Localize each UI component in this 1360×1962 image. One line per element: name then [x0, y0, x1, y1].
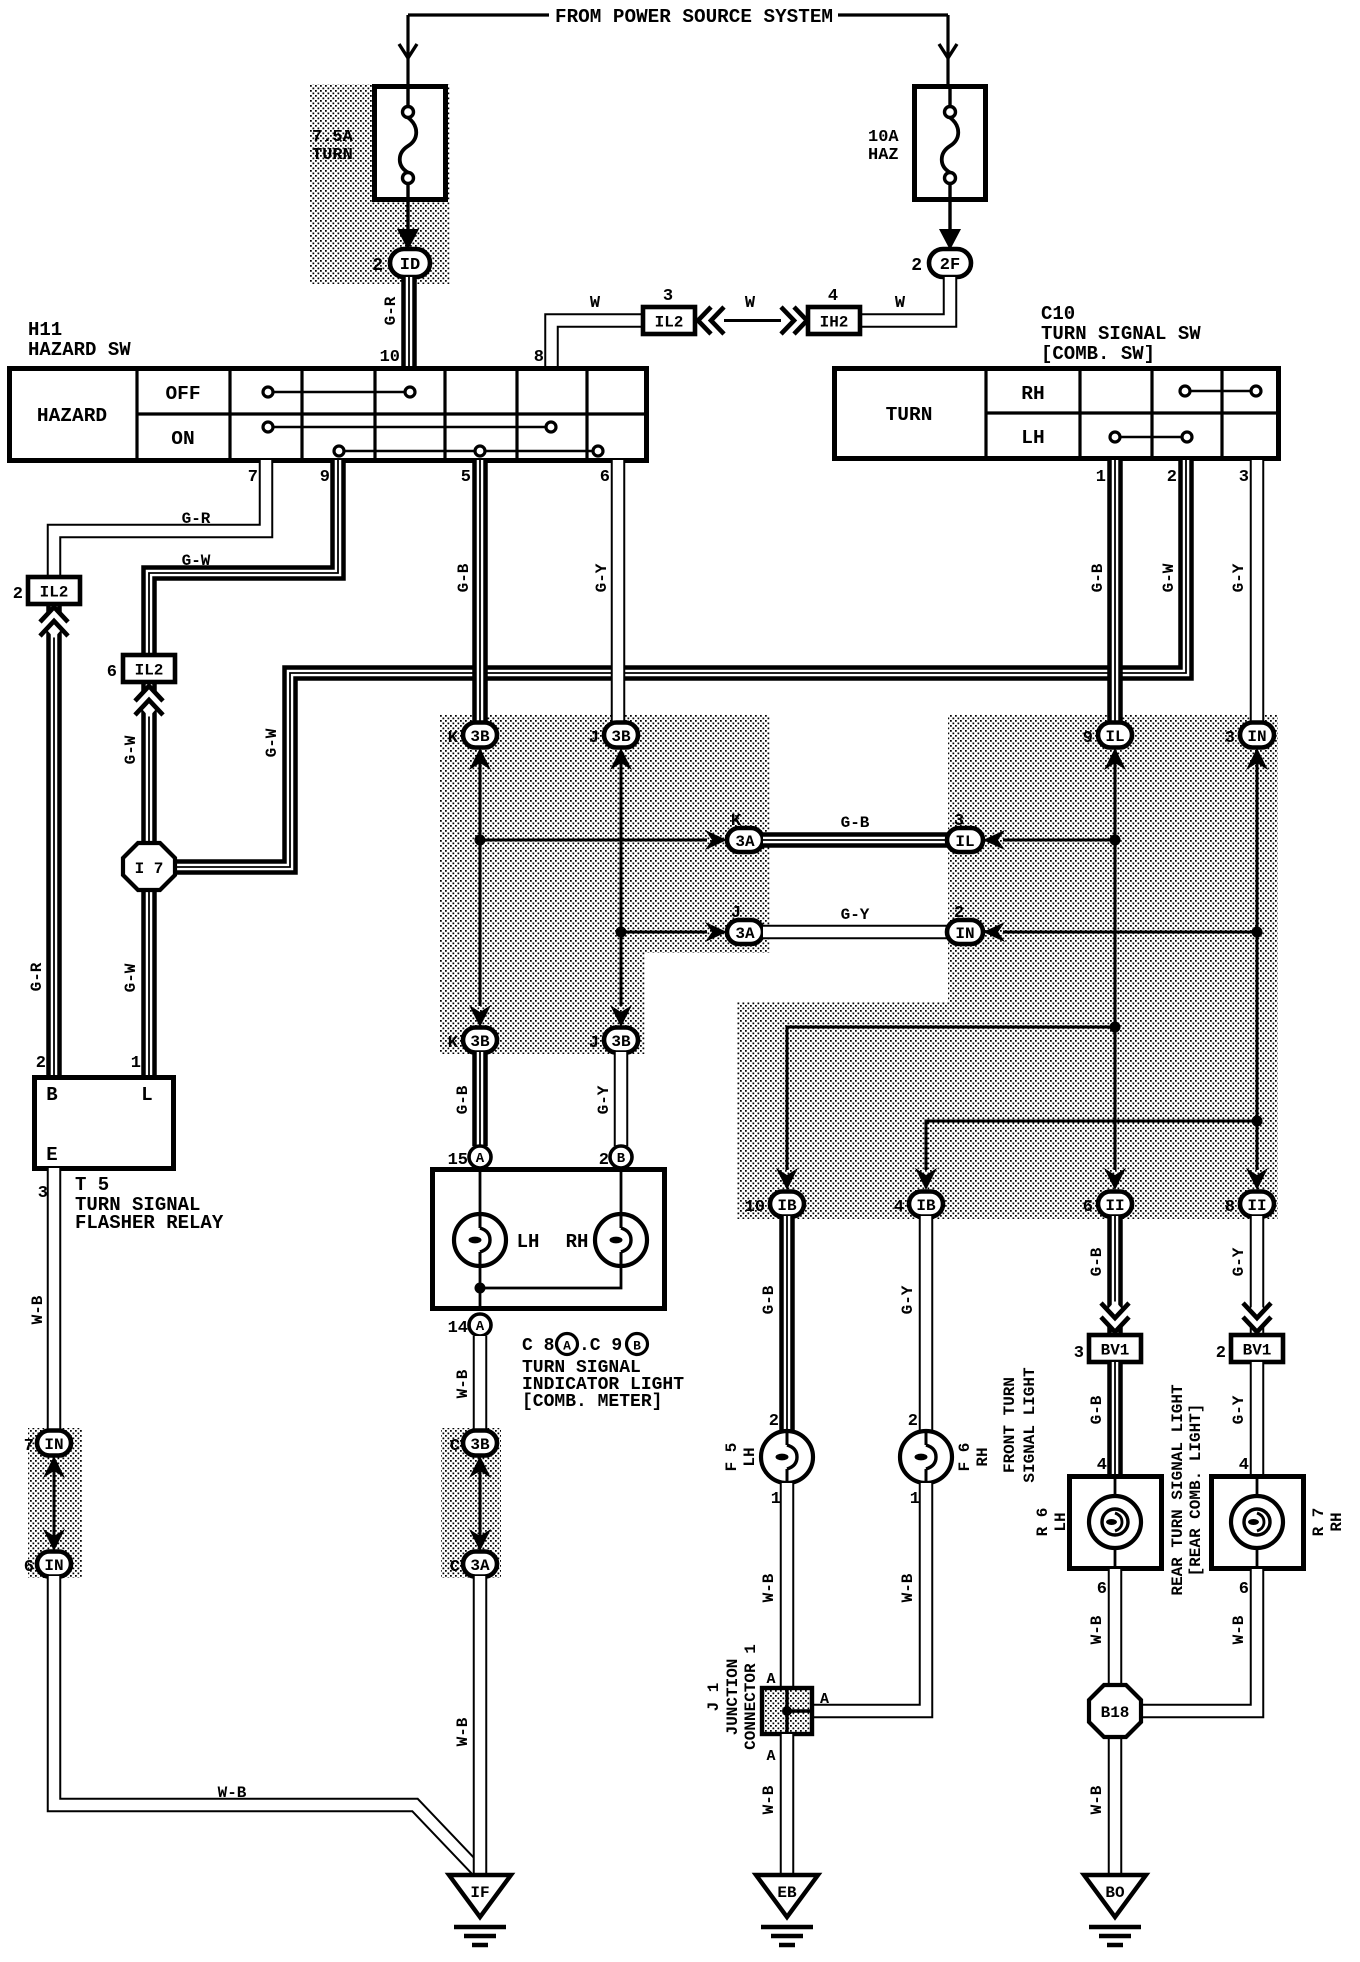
- svg-text:G-Y: G-Y: [595, 1085, 613, 1114]
- wire G-B (turn sw pin 1 to 9 IL): [1107, 460, 1123, 723]
- svg-text:9: 9: [320, 468, 330, 487]
- stipple region lower (IB/II harness): [737, 1002, 1278, 1219]
- stipple region behind 7IN/6IN connectors: [28, 1428, 82, 1578]
- chevrons between IL2 and IH2: [724, 319, 781, 322]
- svg-text:G-B: G-B: [454, 1085, 472, 1114]
- svg-text:IN: IN: [955, 925, 974, 943]
- fuse 10A HAZ: [915, 87, 986, 200]
- svg-text:TURN SIGNAL SW: TURN SIGNAL SW: [1041, 323, 1201, 345]
- svg-text:G-R: G-R: [382, 296, 400, 325]
- svg-text:2: 2: [954, 904, 964, 923]
- svg-text:K: K: [731, 812, 742, 831]
- wire G-Y (J3A to 2 IN): [763, 925, 947, 940]
- svg-text:.C 9: .C 9: [579, 1336, 622, 1356]
- svg-text:6: 6: [1097, 1580, 1107, 1599]
- wire C3B to C3A: [479, 1470, 482, 1545]
- svg-text:3B: 3B: [611, 1033, 631, 1051]
- connector J 3B lower: [604, 1028, 638, 1053]
- svg-text:A: A: [820, 1691, 829, 1708]
- meter pin 2 B: [610, 1146, 632, 1168]
- arrow into 3 IL: [983, 830, 1005, 850]
- wire row K to 3A: [480, 839, 707, 842]
- svg-text:3: 3: [38, 1184, 48, 1203]
- svg-text:W-B: W-B: [454, 1369, 472, 1398]
- connector 6 IN: [37, 1552, 71, 1577]
- connector K 3B lower: [463, 1028, 497, 1053]
- wire G-Y (turn sw pin 3 to 3 IN): [1250, 460, 1265, 723]
- junction dot G-B row3: [1110, 1022, 1121, 1033]
- stipple region right upper (IL/IN harness): [948, 715, 1278, 1002]
- svg-text:G-W: G-W: [1160, 563, 1178, 592]
- svg-text:F 5: F 5: [723, 1443, 741, 1472]
- wire fuse to connector ID: [406, 200, 409, 230]
- svg-text:CONNECTOR 1: CONNECTOR 1: [742, 1644, 760, 1750]
- svg-text:FROM POWER SOURCE SYSTEM: FROM POWER SOURCE SYSTEM: [555, 6, 833, 28]
- junction B18: [1089, 1685, 1141, 1737]
- svg-text:IL2: IL2: [135, 661, 164, 679]
- rear bulb R7: [1231, 1496, 1283, 1548]
- svg-text:1: 1: [910, 1490, 920, 1509]
- svg-text:J 1: J 1: [705, 1683, 723, 1712]
- chevron arrow into 2 BV1: [1243, 1301, 1271, 1331]
- connector J 3B upper: [604, 723, 638, 748]
- junction dot K row: [475, 835, 486, 846]
- svg-text:6: 6: [1239, 1580, 1249, 1599]
- svg-text:L: L: [141, 1084, 152, 1106]
- svg-text:G-B: G-B: [1088, 1247, 1106, 1276]
- hazard sw ON contacts row2: [339, 450, 598, 453]
- connector 3 IN: [1240, 723, 1274, 748]
- svg-text:J: J: [731, 904, 741, 923]
- svg-text:BO: BO: [1105, 1884, 1125, 1902]
- svg-text:B: B: [46, 1084, 57, 1106]
- svg-text:I 7: I 7: [135, 860, 164, 878]
- arrow up into 9 IL: [1104, 748, 1126, 770]
- connector 2 BV1: [1231, 1335, 1283, 1362]
- connector C 3B: [463, 1431, 497, 1456]
- svg-text:B: B: [617, 1151, 626, 1167]
- svg-text:TURN: TURN: [886, 404, 933, 426]
- svg-text:C: C: [450, 1437, 460, 1456]
- svg-text:[COMB. SW]: [COMB. SW]: [1041, 343, 1155, 365]
- svg-text:IL: IL: [955, 833, 974, 851]
- svg-text:R 7: R 7: [1310, 1508, 1328, 1537]
- svg-text:3: 3: [1225, 729, 1235, 748]
- arrow down into 6 II: [1104, 1168, 1126, 1190]
- ground EB: [756, 1875, 818, 1917]
- svg-text:FRONT TURN: FRONT TURN: [1001, 1377, 1019, 1473]
- arrow up into J 3B: [610, 748, 632, 770]
- svg-text:W: W: [895, 294, 906, 313]
- svg-text:1: 1: [1096, 468, 1106, 487]
- svg-text:3B: 3B: [470, 1436, 490, 1454]
- wire 3 IL to G-B column: [1003, 839, 1115, 842]
- svg-text:2: 2: [36, 1054, 46, 1073]
- connector 4 IB: [909, 1192, 943, 1217]
- arrow into 7.5A fuse: [399, 44, 417, 58]
- svg-text:REAR TURN SIGNAL LIGHT: REAR TURN SIGNAL LIGHT: [1169, 1384, 1187, 1596]
- wire G-Y (4 IB to F6): [919, 1216, 934, 1432]
- svg-text:5: 5: [461, 468, 471, 487]
- ground IF: [449, 1875, 511, 1917]
- wire W-B (F6 to J1): [814, 1483, 926, 1711]
- svg-text:8: 8: [534, 348, 544, 367]
- wire row J to 3A: [621, 931, 707, 934]
- svg-text:W-B: W-B: [454, 1717, 472, 1746]
- connector 7 IN: [37, 1431, 71, 1456]
- svg-text:G-B: G-B: [1089, 563, 1107, 592]
- wire to 4 IB: [926, 1121, 1257, 1170]
- svg-text:7: 7: [248, 468, 258, 487]
- connector J 3A: [727, 920, 763, 944]
- svg-text:4: 4: [894, 1198, 904, 1217]
- connector 2 IN: [947, 920, 983, 944]
- svg-text:IL: IL: [1105, 728, 1124, 746]
- hazard sw ON contacts row1: [268, 426, 551, 429]
- connector 6 II: [1098, 1192, 1132, 1217]
- arrow down into 6 IN: [43, 1529, 65, 1551]
- connector 3 IL2: [643, 307, 695, 334]
- svg-text:LH: LH: [741, 1447, 759, 1466]
- svg-text:H11: H11: [28, 319, 62, 341]
- svg-text:G-R: G-R: [182, 510, 211, 528]
- wire from power source to 10A fuse: [838, 13, 948, 16]
- front turn signal bulb F6: [900, 1431, 952, 1483]
- svg-text:ID: ID: [400, 256, 420, 275]
- junction connector J1: [762, 1688, 812, 1734]
- connector 9 IL: [1098, 723, 1132, 748]
- svg-text:A: A: [766, 1671, 775, 1688]
- svg-text:[REAR COMB. LIGHT]: [REAR COMB. LIGHT]: [1187, 1404, 1205, 1577]
- svg-text:RH: RH: [1328, 1512, 1346, 1531]
- wire G-R (hazard pin 7 to IL2 pin 2): [54, 460, 266, 578]
- svg-text:EB: EB: [777, 1884, 797, 1902]
- wire to 10 IB: [787, 1027, 1115, 1170]
- arrow into K 3A: [705, 830, 727, 850]
- wire G-B (10 IB to F5): [779, 1216, 795, 1432]
- svg-text:3B: 3B: [611, 728, 631, 746]
- rear turn signal light R6 box: [1070, 1477, 1162, 1569]
- wire W-B (F5 to J1): [780, 1483, 795, 1689]
- svg-text:G-Y: G-Y: [1230, 563, 1248, 592]
- wire J 3B to J 3B lower: [620, 762, 623, 1006]
- fuse 7.5A TURN: [375, 87, 446, 200]
- svg-text:2: 2: [1167, 468, 1177, 487]
- svg-text:LH: LH: [517, 1231, 540, 1253]
- svg-text:J: J: [589, 729, 599, 748]
- junction dot G-B row1: [1110, 835, 1121, 846]
- svg-text:W-B: W-B: [899, 1573, 917, 1602]
- svg-text:C: C: [450, 1558, 460, 1577]
- svg-text:10A: 10A: [868, 128, 899, 147]
- connector 4 IH2: [808, 307, 860, 334]
- svg-text:G-B: G-B: [1088, 1395, 1106, 1424]
- svg-text:4: 4: [1239, 1456, 1249, 1475]
- svg-text:2F: 2F: [940, 256, 960, 275]
- svg-text:HAZ: HAZ: [868, 146, 899, 165]
- svg-text:3A: 3A: [735, 833, 755, 851]
- ground BO: [1084, 1875, 1146, 1917]
- svg-text:3: 3: [1239, 468, 1249, 487]
- arrow down into 8 II: [1246, 1168, 1268, 1190]
- svg-text:2: 2: [13, 585, 23, 604]
- svg-text:IL2: IL2: [655, 313, 684, 331]
- svg-text:IL2: IL2: [40, 583, 69, 601]
- svg-text:G-W: G-W: [122, 963, 140, 992]
- connector 10 IB: [770, 1192, 804, 1217]
- wire W-B (6 IN to ground IF): [54, 1576, 476, 1869]
- arrow into 2 IN: [983, 922, 1005, 942]
- svg-text:HAZARD: HAZARD: [37, 405, 107, 427]
- stipple region behind C3B/C3A connectors: [441, 1428, 501, 1578]
- svg-text:IN: IN: [44, 1436, 63, 1454]
- turn signal switch box C10: [835, 369, 1279, 459]
- wire G-R (IL2 pin2 to relay B): [46, 604, 62, 1077]
- svg-text:IF: IF: [470, 1884, 489, 1902]
- wire 9 IL down to 6 II: [1114, 762, 1117, 1170]
- svg-text:RH: RH: [974, 1447, 992, 1466]
- hazard switch box H11: [10, 369, 647, 461]
- svg-text:2: 2: [769, 1412, 779, 1431]
- svg-text:ON: ON: [171, 428, 194, 450]
- svg-text:W-B: W-B: [760, 1785, 778, 1814]
- wire G-B (BV1 to R6): [1107, 1362, 1123, 1476]
- svg-text:G-W: G-W: [263, 728, 281, 757]
- wire G-Y (J3B to meter pin 2): [614, 1052, 629, 1146]
- wire fuse to connector 2F: [948, 200, 951, 230]
- wire G-W (IL2 pin6 through I7 to relay L): [141, 682, 157, 1077]
- arrow down into 4 IB: [915, 1168, 937, 1190]
- arrow up into C 3B: [469, 1456, 491, 1478]
- arrow into J 3A: [705, 922, 727, 942]
- arrow up into 7 IN: [43, 1456, 65, 1478]
- svg-text:10: 10: [380, 348, 400, 367]
- connector K 3B upper: [463, 723, 497, 748]
- svg-text:RH: RH: [566, 1231, 589, 1253]
- wire 7IN to 6IN: [53, 1470, 56, 1545]
- svg-text:G-B: G-B: [841, 814, 870, 832]
- wire G-B (hazard pin 5 to K 3B): [472, 460, 488, 723]
- svg-text:G-W: G-W: [122, 735, 140, 764]
- relay T5 box: [35, 1078, 174, 1169]
- wire K 3B to K 3B lower: [479, 762, 482, 1006]
- arrow up into 3 IN: [1246, 748, 1268, 770]
- svg-text:2: 2: [908, 1412, 918, 1431]
- svg-text:J: J: [589, 1034, 599, 1053]
- arrow down into J 3B lower: [610, 1005, 632, 1027]
- wire G-B (K3B to meter pin 15): [472, 1052, 488, 1146]
- wire W (2F to IH2): [860, 277, 950, 321]
- svg-text:G-Y: G-Y: [593, 563, 611, 592]
- connector 3 IL: [947, 828, 983, 852]
- wire 2 IN to G-Y column: [1003, 931, 1257, 934]
- meter pin 15 A: [469, 1146, 491, 1168]
- svg-text:G-Y: G-Y: [1230, 1395, 1248, 1424]
- svg-text:G-Y: G-Y: [841, 906, 870, 924]
- connector K 3A: [727, 828, 763, 852]
- svg-text:G-R: G-R: [28, 962, 46, 991]
- wire W-B (C 3A to ground IF): [473, 1576, 488, 1877]
- svg-text:IN: IN: [1247, 728, 1266, 746]
- arrow into 10A fuse: [939, 44, 957, 58]
- svg-text:15: 15: [448, 1151, 468, 1170]
- svg-text:G-W: G-W: [182, 552, 211, 570]
- stipple region around 7.5A TURN fuse: [310, 84, 450, 284]
- svg-text:A: A: [476, 1319, 485, 1335]
- wire W (IL2 to hazard sw pin 8): [552, 321, 646, 369]
- wire W-B (meter pin14 to C 3B): [473, 1336, 488, 1432]
- svg-text:3A: 3A: [735, 925, 755, 943]
- svg-text:3: 3: [663, 287, 673, 306]
- junction I 7: [123, 843, 175, 890]
- arrow down into K 3B lower: [469, 1005, 491, 1027]
- arrow down into C 3A: [469, 1529, 491, 1551]
- svg-text:W-B: W-B: [760, 1573, 778, 1602]
- svg-text:IB: IB: [777, 1197, 797, 1215]
- connector 2 IL2: [28, 577, 80, 604]
- svg-text:3A: 3A: [470, 1557, 490, 1575]
- svg-text:IN: IN: [44, 1557, 63, 1575]
- arrow up into K 3B: [469, 748, 491, 770]
- svg-text:II: II: [1105, 1197, 1124, 1215]
- combination meter box: [433, 1170, 665, 1309]
- wire G-Y (BV1 to R7): [1250, 1362, 1265, 1476]
- arrow down into 10 IB: [776, 1168, 798, 1190]
- svg-text:6: 6: [24, 1558, 34, 1577]
- svg-text:3: 3: [1074, 1344, 1084, 1363]
- svg-text:A: A: [476, 1151, 485, 1167]
- svg-text:W-B: W-B: [1088, 1785, 1106, 1814]
- svg-text:W-B: W-B: [1088, 1615, 1106, 1644]
- svg-text:R 6: R 6: [1034, 1508, 1052, 1537]
- svg-text:3B: 3B: [470, 1033, 490, 1051]
- svg-text:B: B: [633, 1339, 641, 1354]
- connector 3 BV1: [1089, 1335, 1141, 1362]
- connector 2 ID: [390, 249, 430, 277]
- wire W-B (R7 to B18): [1140, 1569, 1257, 1711]
- turn sw RH contacts: [1185, 390, 1256, 393]
- wire G-B (6 II to BV1): [1107, 1216, 1123, 1337]
- svg-text:FLASHER RELAY: FLASHER RELAY: [75, 1212, 224, 1234]
- svg-text:7.5A: 7.5A: [312, 128, 354, 147]
- svg-text:14: 14: [448, 1319, 468, 1338]
- svg-text:LH: LH: [1021, 427, 1044, 449]
- svg-text:7: 7: [24, 1437, 34, 1456]
- wire G-B (K3A to 3 IL): [763, 832, 947, 848]
- wire W-B (J1 to ground EB): [780, 1734, 795, 1877]
- svg-text:B18: B18: [1101, 1704, 1130, 1722]
- meter internal wiring: [479, 1168, 482, 1216]
- svg-text:G-Y: G-Y: [1230, 1247, 1248, 1276]
- svg-text:TURN: TURN: [312, 146, 353, 165]
- svg-text:RH: RH: [1021, 383, 1044, 405]
- svg-text:9: 9: [1083, 729, 1093, 748]
- wire G-W (hazard pin 9 to IL2 pin 6): [149, 460, 338, 657]
- svg-text:C 8: C 8: [522, 1336, 554, 1356]
- svg-text:2: 2: [911, 256, 922, 276]
- svg-text:6: 6: [107, 663, 117, 682]
- wire W-B (R6 to ground BO): [1108, 1569, 1123, 1877]
- svg-text:8: 8: [1225, 1198, 1235, 1217]
- svg-text:W-B: W-B: [1230, 1615, 1248, 1644]
- stipple region middle-left (K/J 3B harness): [440, 715, 770, 953]
- wire G-W (I7 to turn sw pin 2): [172, 460, 1186, 867]
- svg-text:BV1: BV1: [1243, 1341, 1272, 1359]
- svg-text:K: K: [448, 1034, 459, 1053]
- junction dot G-Y row2: [1252, 927, 1263, 938]
- svg-text:K: K: [448, 729, 459, 748]
- svg-text:6: 6: [600, 468, 610, 487]
- svg-text:C10: C10: [1041, 303, 1075, 325]
- svg-text:G-B: G-B: [760, 1285, 778, 1314]
- svg-text:T 5: T 5: [75, 1174, 109, 1196]
- wire G-Y (8 II to BV1): [1250, 1216, 1265, 1337]
- connector 8 II: [1240, 1192, 1274, 1217]
- svg-text:W: W: [745, 294, 756, 313]
- svg-text:HAZARD SW: HAZARD SW: [28, 339, 131, 361]
- svg-text:SIGNAL LIGHT: SIGNAL LIGHT: [1021, 1367, 1039, 1483]
- wire 3 IN down to 8 II: [1256, 762, 1259, 1170]
- svg-text:IB: IB: [916, 1197, 936, 1215]
- svg-text:10: 10: [745, 1198, 765, 1217]
- svg-text:W: W: [590, 294, 601, 313]
- hazard sw OFF contacts: [268, 391, 410, 394]
- svg-text:[COMB. METER]: [COMB. METER]: [522, 1392, 662, 1412]
- svg-text:BV1: BV1: [1101, 1341, 1130, 1359]
- svg-text:E: E: [46, 1144, 57, 1166]
- connector 2 2F: [929, 249, 971, 277]
- connector C 3A: [463, 1552, 497, 1577]
- svg-text:A: A: [766, 1748, 775, 1765]
- junction dot G-Y row4: [1252, 1116, 1263, 1127]
- rear turn signal light R7 box: [1212, 1477, 1304, 1569]
- wire from power source to 7.5A fuse: [408, 13, 549, 16]
- wire G-R (ID to hazard sw pin 10): [401, 277, 417, 368]
- svg-text:G-B: G-B: [455, 563, 473, 592]
- svg-text:2: 2: [372, 256, 383, 276]
- chevron arrow into 3 BV1: [1101, 1301, 1129, 1331]
- svg-text:2: 2: [599, 1151, 609, 1170]
- rear bulb R6: [1089, 1496, 1141, 1548]
- svg-text:II: II: [1247, 1197, 1266, 1215]
- svg-text:JUNCTION: JUNCTION: [724, 1659, 742, 1736]
- svg-text:A: A: [563, 1339, 571, 1354]
- indicator bulb RH: [595, 1214, 647, 1266]
- svg-text:4: 4: [828, 287, 838, 306]
- indicator bulb LH: [454, 1214, 506, 1266]
- svg-text:W-B: W-B: [29, 1295, 47, 1324]
- wire G-Y (hazard pin 6 to J 3B): [611, 460, 626, 723]
- wire W-B (relay E to 7 IN): [47, 1168, 62, 1432]
- svg-text:OFF: OFF: [165, 383, 200, 405]
- svg-text:IH2: IH2: [820, 313, 849, 331]
- svg-text:2: 2: [1216, 1344, 1226, 1363]
- svg-text:LH: LH: [1052, 1512, 1070, 1531]
- svg-text:4: 4: [1097, 1456, 1107, 1475]
- svg-text:1: 1: [771, 1490, 781, 1509]
- svg-text:G-Y: G-Y: [899, 1285, 917, 1314]
- connector 6 IL2: [123, 655, 175, 682]
- turn sw LH contacts: [1115, 436, 1187, 439]
- svg-text:3B: 3B: [470, 728, 490, 746]
- svg-text:3: 3: [954, 812, 964, 831]
- svg-text:F 6: F 6: [956, 1443, 974, 1472]
- chevron arrow into 6 IL2: [135, 687, 163, 717]
- svg-text:1: 1: [131, 1054, 141, 1073]
- junction dot J row: [616, 927, 627, 938]
- meter pin 14 A: [469, 1314, 491, 1336]
- front turn signal bulb F5: [761, 1431, 813, 1483]
